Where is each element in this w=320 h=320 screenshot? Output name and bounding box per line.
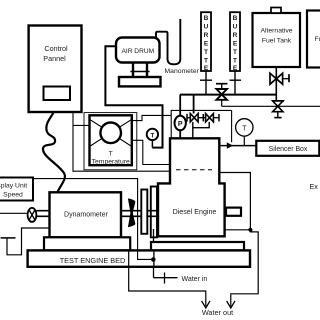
wire: speed sensor to coupling	[0, 212, 28, 214]
alternative fuel tank	[253, 8, 301, 68]
water drain from bed	[129, 250, 206, 306]
svg-text:Display Unit: Display Unit	[0, 183, 27, 190]
wire: temperature box right to air line	[132, 115, 171, 120]
junction dot right	[248, 228, 252, 232]
svg-text:Ex: Ex	[310, 182, 319, 191]
valve H2 on P2 (hourglass with bottom stem)	[272, 101, 284, 118]
burette B1	[201, 12, 211, 72]
temperature gauge T (exhaust)	[236, 119, 253, 146]
wire: display-to-dot segment over bed	[138, 250, 152, 259]
water in tee	[154, 273, 208, 284]
svg-text:P: P	[178, 121, 183, 128]
engine base pedestal	[151, 242, 244, 250]
burette B2	[230, 12, 240, 72]
wire: branch to temperature box left	[73, 124, 90, 126]
svg-text:TEST ENGINE BED: TEST ENGINE BED	[60, 256, 126, 265]
valve V1 on P1 (vertical hourglass with top bar)	[216, 84, 227, 100]
shaft: flywheel to engine	[147, 211, 158, 217]
svg-text:Speed: Speed	[3, 192, 23, 199]
svg-text:Diesel Engine: Diesel Engine	[173, 208, 217, 216]
svg-text:Pannel: Pannel	[43, 54, 66, 63]
svg-text:Fuel Tank: Fuel Tank	[262, 38, 292, 45]
temperature gauge T (small, on air inlet)	[147, 129, 158, 148]
svg-text:Dynamometer: Dynamometer	[64, 212, 109, 219]
dynamometer pedestal	[44, 237, 130, 250]
svg-text:B: B	[204, 15, 209, 22]
pipe: alt tank outlet vertical	[275, 67, 277, 101]
valve B2h (bowtie)	[203, 114, 219, 122]
control panel box	[29, 26, 82, 113]
load cell wire from dynamometer	[1, 228, 50, 255]
shaft: dynamometer to flywheel	[121, 211, 141, 217]
thin enclosure over engine top	[171, 110, 231, 138]
shaft: coupling to dynamometer	[36, 211, 49, 217]
coupling (circle with X)	[28, 208, 37, 222]
water out pipe right side	[231, 230, 258, 306]
svg-text:Fu: Fu	[315, 36, 320, 43]
svg-text:R: R	[204, 32, 209, 39]
engine water outlet upper wire	[219, 173, 250, 230]
water out arrow 2	[227, 301, 235, 308]
exhaust port on engine right	[226, 208, 241, 216]
burette B2 outlet stem and crossbar	[230, 71, 242, 95]
propeller / fan (bowtie)	[128, 198, 135, 227]
svg-text:Temperature: Temperature	[92, 159, 130, 166]
flywheel plate 2	[151, 187, 157, 238]
control panel inner rectangle	[44, 87, 71, 101]
water inlet line over bed (redraw over bed)	[153, 250, 155, 266]
pipe P1: burette manifold horizontal	[180, 94, 276, 96]
wire: control panel to engine sensor	[73, 113, 170, 172]
pipe: U link under valves into engine	[193, 122, 209, 138]
svg-text:T: T	[109, 151, 113, 158]
air drum	[116, 38, 160, 63]
junction dot redraw	[151, 257, 156, 262]
svg-text:U: U	[204, 24, 209, 31]
temperature display box	[90, 115, 132, 165]
temperature display box (thin enclosure)	[84, 113, 137, 170]
svg-text:T: T	[204, 49, 208, 56]
flow arrow on exhaust pipe	[227, 142, 233, 148]
wire: control panel cable (wavy) to dynamometer	[43, 113, 65, 193]
svg-text:Control: Control	[44, 44, 68, 53]
svg-text:T: T	[150, 132, 154, 139]
fuel tank FT (right, clipped)	[307, 11, 320, 68]
test engine bed	[28, 250, 250, 266]
pressure gauge P (inline on fuel line)	[175, 95, 186, 139]
valve on alt tank outlet (bowtie with handle)	[270, 73, 289, 84]
wire: P2 branch down to exhaust pipe	[231, 110, 233, 142]
pipe: P1 drop to valve row	[193, 95, 195, 114]
svg-text:T: T	[204, 58, 208, 65]
manometer U-tube	[156, 19, 200, 75]
display unit box	[0, 178, 33, 201]
svg-text:Silencer Box: Silencer Box	[269, 146, 308, 153]
svg-text:B: B	[233, 15, 238, 22]
svg-text:U: U	[233, 24, 238, 31]
svg-text:Water out: Water out	[202, 308, 233, 317]
valve row left cap bar	[187, 114, 190, 122]
engine water outlet lower wire	[225, 229, 250, 231]
svg-text:Manometer: Manometer	[165, 68, 200, 75]
valve B1h (bowtie)	[190, 114, 203, 122]
wire: display unit to water junction	[33, 179, 152, 260]
exhaust pipe to silencer	[219, 145, 256, 147]
svg-text:AIR DRUM: AIR DRUM	[121, 48, 154, 55]
svg-text:E: E	[204, 65, 209, 72]
svg-text:E: E	[233, 41, 238, 48]
air drum legs	[131, 63, 150, 78]
flywheel plate 1	[141, 190, 147, 234]
svg-text:T: T	[233, 58, 237, 65]
svg-text:E: E	[233, 65, 238, 72]
dynamometer	[50, 192, 122, 237]
water out arrow 1	[202, 301, 210, 308]
pipe: air drum to engine intake	[105, 46, 162, 147]
pipe P2: thin fuel line to right edge	[222, 105, 320, 107]
wire: V1 bottom to pipe P2	[221, 100, 223, 107]
svg-text:Alternative: Alternative	[260, 28, 292, 35]
silencer box	[256, 141, 319, 156]
water inlet line with junction dot	[151, 229, 156, 278]
svg-text:E: E	[204, 41, 209, 48]
svg-text:Water in: Water in	[182, 276, 208, 283]
svg-text:T: T	[242, 125, 247, 132]
burette B1 outlet stem and crossbar	[200, 71, 212, 95]
air drum base	[119, 77, 161, 86]
diesel engine body	[158, 138, 225, 236]
svg-text:R: R	[233, 32, 238, 39]
svg-text:T: T	[233, 49, 237, 56]
wire: temperature box right lower to engine	[132, 140, 170, 164]
